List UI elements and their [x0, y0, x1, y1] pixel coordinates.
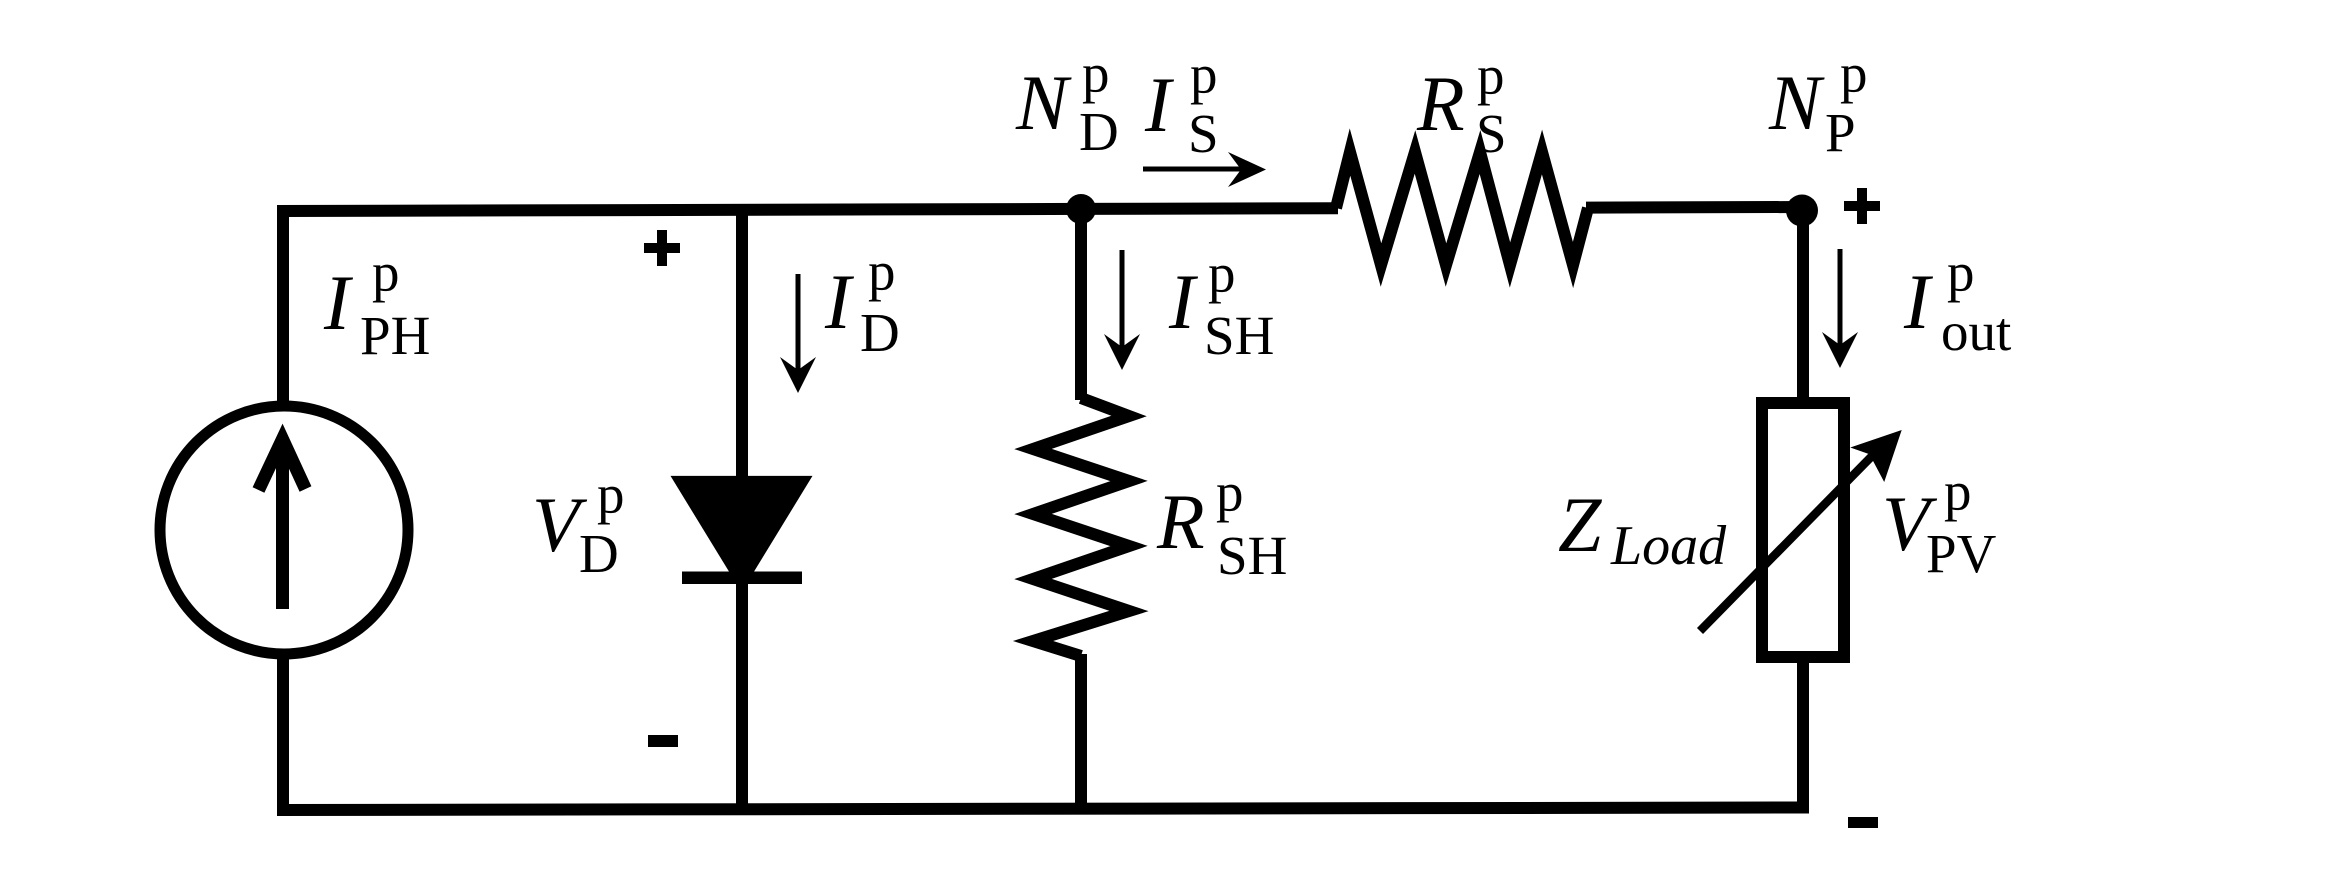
svg-text:I: I	[323, 259, 354, 346]
svg-text:p: p	[1947, 242, 1975, 303]
diode plus sign	[644, 230, 680, 266]
resistor RSH	[1033, 398, 1129, 656]
label IS	[1144, 44, 1219, 164]
label ISH	[1168, 243, 1274, 366]
svg-text:I: I	[824, 258, 855, 345]
label RS	[1416, 45, 1507, 164]
svg-text:D: D	[860, 302, 900, 363]
load variable arrow	[1700, 456, 1872, 631]
current source arrow	[276, 444, 289, 609]
wire bottom rail: from current source bottom, along bottom, up to load bottom	[283, 648, 1803, 810]
label ND node name	[1015, 43, 1119, 162]
wire right vertical to load top	[1797, 204, 1809, 405]
wire shunt top lead	[1075, 205, 1087, 400]
svg-text:p: p	[1840, 43, 1868, 104]
svg-text:p: p	[597, 464, 625, 525]
wire top-left: left vertical + top horizontal to node ND	[283, 209, 1085, 412]
svg-text:N: N	[1015, 59, 1072, 146]
svg-text:N: N	[1768, 59, 1825, 146]
diode cathode bar	[682, 572, 802, 585]
svg-text:PH: PH	[360, 305, 430, 366]
svg-text:p: p	[1944, 461, 1972, 522]
wire diode top lead	[736, 204, 748, 479]
svg-text:p: p	[1477, 45, 1505, 106]
svg-text:R: R	[1416, 60, 1465, 147]
label IPH	[323, 242, 430, 366]
diode triangle	[671, 476, 813, 592]
svg-text:SH: SH	[1217, 525, 1287, 586]
svg-text:p: p	[1208, 243, 1236, 304]
label ZLoad	[1558, 481, 1727, 577]
svg-text:p: p	[1216, 462, 1244, 523]
current source IPH circle	[160, 406, 408, 654]
wire resistor RS right lead to node NP	[1586, 201, 1801, 214]
svg-text:out: out	[1941, 301, 2011, 362]
load ZLoad rectangle	[1762, 403, 1844, 657]
svg-text:D: D	[1079, 101, 1119, 162]
label Iout	[1903, 242, 2011, 362]
svg-text:I: I	[1144, 61, 1175, 148]
svg-text:S: S	[1188, 103, 1219, 164]
svg-text:R: R	[1156, 478, 1205, 565]
svg-text:Load: Load	[1610, 515, 1727, 577]
load plus sign	[1844, 188, 1880, 224]
label ID	[824, 241, 900, 363]
svg-text:Z: Z	[1558, 481, 1603, 568]
label NP node name	[1768, 43, 1868, 163]
svg-text:PV: PV	[1926, 523, 1997, 584]
svg-text:D: D	[579, 523, 619, 584]
arrow ID	[796, 274, 801, 370]
arrow Iout	[1838, 249, 1843, 345]
svg-text:p: p	[372, 242, 400, 303]
svg-text:I: I	[1903, 258, 1934, 345]
svg-text:I: I	[1168, 258, 1199, 345]
load minus sign	[1848, 817, 1878, 828]
svg-text:p: p	[868, 241, 896, 302]
svg-text:S: S	[1476, 103, 1507, 164]
label VD	[532, 464, 625, 584]
label VPV	[1882, 461, 1997, 584]
resistor RS	[1336, 152, 1588, 265]
wire node ND to resistor RS left lead	[1079, 202, 1338, 215]
svg-text:p: p	[1082, 43, 1110, 104]
svg-text:SH: SH	[1204, 305, 1274, 366]
diode minus sign	[648, 735, 678, 747]
label RSH	[1156, 462, 1287, 586]
wire shunt bottom lead	[1075, 654, 1087, 813]
arrow ISH	[1120, 250, 1125, 347]
arrow IS	[1143, 167, 1241, 172]
wire diode bottom lead	[736, 582, 748, 813]
svg-text:p: p	[1190, 44, 1218, 105]
node ND dot	[1066, 194, 1096, 224]
node NP dot	[1786, 195, 1818, 227]
svg-text:P: P	[1825, 102, 1856, 163]
